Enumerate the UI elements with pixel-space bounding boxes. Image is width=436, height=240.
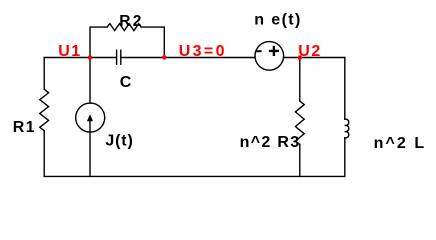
wire capacitor to voltage source bbox=[121, 57, 255, 59]
wire bottom rail bbox=[44, 175, 345, 177]
wire R3 branch lower bbox=[299, 145, 301, 177]
wire R2 right stub down to node U3 bbox=[141, 27, 164, 57]
wire left vertical lower (below R1) bbox=[43, 131, 45, 177]
node U3 junction dot bbox=[162, 55, 167, 60]
current source arrowhead bbox=[87, 114, 93, 121]
voltage source plus sign bbox=[269, 46, 279, 56]
wire current source branch upper bbox=[89, 58, 91, 104]
node U1 junction dot bbox=[88, 55, 93, 60]
wire right vertical upper (above inductor) bbox=[344, 58, 346, 120]
svg-text:n^2 L: n^2 L bbox=[374, 135, 425, 152]
wire voltage source to top-right corner bbox=[284, 57, 345, 59]
node U2 junction dot bbox=[298, 55, 303, 60]
wire R2 left stub up from node U1 bbox=[90, 27, 107, 57]
current source J1 circle bbox=[76, 103, 105, 132]
wire left vertical upper (above R1) bbox=[43, 58, 45, 90]
current source arrow tail bbox=[89, 121, 91, 132]
svg-text:R1: R1 bbox=[13, 119, 35, 136]
svg-text:n e(t): n e(t) bbox=[254, 11, 300, 28]
resistor R1 zigzag bbox=[40, 89, 49, 130]
svg-text:J(t): J(t) bbox=[105, 133, 132, 150]
wire current source branch lower bbox=[89, 132, 91, 176]
wire top rail left: top-left corner to capacitor bbox=[44, 57, 116, 59]
voltage source V1 circle bbox=[255, 42, 284, 71]
svg-text:n^2 R3: n^2 R3 bbox=[240, 134, 300, 151]
capacitor C left plate bbox=[116, 50, 118, 64]
resistor R2 zigzag bbox=[107, 24, 141, 31]
wire R3 branch upper (node U2 down) bbox=[299, 58, 301, 102]
resistor R3 zigzag (n^2 R3) bbox=[295, 101, 304, 145]
voltage source minus sign bbox=[256, 50, 261, 52]
wire right vertical lower (below inductor) bbox=[344, 138, 346, 177]
svg-text:U2: U2 bbox=[298, 43, 320, 60]
svg-text:U1: U1 bbox=[58, 43, 80, 60]
svg-text:C: C bbox=[120, 74, 132, 91]
inductor L coil (n^2 L) bbox=[345, 119, 349, 138]
svg-text:R2: R2 bbox=[119, 13, 141, 30]
capacitor C right plate bbox=[120, 50, 122, 64]
